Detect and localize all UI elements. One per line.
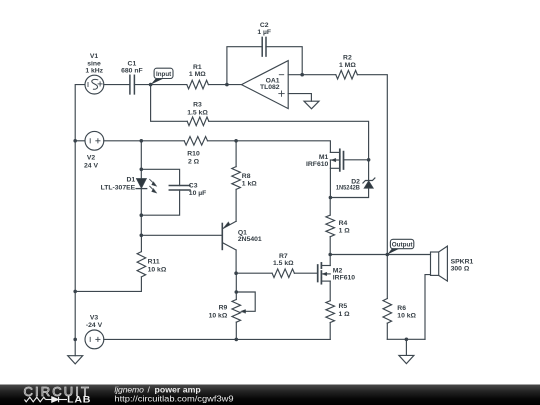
ground bottom-left [68,356,83,364]
svg-text:R10: R10 [187,151,200,158]
svg-text:R7: R7 [279,253,288,260]
svg-text:D1: D1 [126,177,135,184]
wire Q1 base row [141,234,221,236]
svg-text:LTL-307EE: LTL-307EE [101,184,136,191]
svg-text:1 Ω: 1 Ω [339,228,351,235]
svg-text:C3: C3 [189,182,198,189]
svg-text:R8: R8 [242,173,251,180]
svg-text:R9: R9 [219,305,228,312]
wire D1/C3 bottom to Q1 base row [140,215,142,235]
svg-text:10 kΩ: 10 kΩ [209,313,228,320]
svg-text:1 kΩ: 1 kΩ [242,180,257,187]
svg-text:C1: C1 [128,60,137,67]
svg-text:R1: R1 [193,64,202,71]
ground output [399,339,414,363]
svg-text:1.5 kΩ: 1.5 kΩ [187,109,208,116]
svg-text:Input: Input [156,71,172,78]
resistor R11 [75,235,146,291]
wire R6/speaker bottom [387,338,425,340]
svg-text:IRF610: IRF610 [333,275,356,282]
svg-text:10 kΩ: 10 kΩ [148,267,167,274]
svg-text:24 V: 24 V [84,162,98,169]
svg-text:sine: sine [87,60,101,67]
svg-text:V1: V1 [90,53,99,60]
wire op-amp plus input to ground [288,94,311,102]
resistor R5 [326,301,335,340]
voltage source V1 [85,75,104,94]
flag Input [151,68,173,84]
svg-text:TL082: TL082 [260,84,280,91]
svg-text:680 nF: 680 nF [121,68,143,75]
svg-text:R3: R3 [193,102,202,109]
transistor Q1 [222,221,236,273]
resistor R3 [187,117,368,160]
svg-text:1 MΩ: 1 MΩ [339,62,356,69]
resistor R1 [151,80,227,89]
resistor R4 [326,198,335,255]
wire C1 to input node [134,84,150,86]
voltage source V2 [85,131,104,150]
svg-text:2 Ω: 2 Ω [188,158,200,165]
svg-text:1 kHz: 1 kHz [85,68,103,75]
svg-text:1N5242B: 1N5242B [336,185,360,192]
speaker SPKR1 [431,246,448,281]
svg-text:2N5401: 2N5401 [238,236,262,243]
mosfet M1 (mirrored) [330,149,368,197]
wire output row [330,254,430,256]
op-amp OA1 (mirrored, output at left vertex) [227,61,288,109]
svg-text:LAB: LAB [67,395,91,405]
wire V2 tap [75,140,85,142]
wire left rail [75,85,85,356]
svg-text:http://circuitlab.com/cgwf3w9: http://circuitlab.com/cgwf3w9 [114,394,233,404]
svg-text:R4: R4 [339,220,348,227]
svg-text:Output: Output [392,242,413,249]
capacitor C1 [130,75,135,94]
svg-text:R11: R11 [148,258,160,265]
wire op-amp minus input to R2 [288,74,336,76]
svg-text:R2: R2 [343,55,352,62]
capacitor C2 [227,37,302,84]
svg-text:1 MΩ: 1 MΩ [189,71,206,78]
voltage source V3 [85,330,104,349]
LED D1 [136,141,157,215]
wire V2 to R10 [104,140,184,142]
resistor R7 [236,269,318,278]
svg-text:SPKR1: SPKR1 [451,258,474,265]
resistor R6 [383,255,392,340]
wire V1 to C1 [104,84,130,86]
svg-text:M1: M1 [319,154,329,161]
wire speaker return [425,275,431,340]
svg-text:-24 V: -24 V [86,322,103,329]
svg-text:V2: V2 [87,155,96,162]
resistor R8 [232,141,241,222]
wire bottom rail [104,338,330,340]
svg-text:V3: V3 [90,315,99,322]
svg-text:1 µF: 1 µF [257,29,271,36]
wire input node down to R3 row [151,85,188,122]
ground op-amp [304,101,319,109]
svg-text:R5: R5 [339,303,348,310]
svg-text:1 Ω: 1 Ω [339,311,351,318]
mosfet M2 [318,255,331,301]
svg-text:10 kΩ: 10 kΩ [397,312,416,319]
logo squiggle [25,397,68,402]
svg-text:R6: R6 [397,305,406,312]
footer bar [0,385,540,405]
svg-text:IRF610: IRF610 [306,161,329,168]
potentiometer R9 [232,273,255,339]
flag Output [387,239,414,254]
svg-text:1.5 kΩ: 1.5 kΩ [273,260,294,267]
capacitor C3 [141,169,190,215]
resistor R2 [336,70,388,254]
svg-text:10 µF: 10 µF [189,190,207,197]
zener diode D2 [330,160,375,198]
resistor R10 [184,137,330,153]
svg-text:300 Ω: 300 Ω [451,266,470,273]
